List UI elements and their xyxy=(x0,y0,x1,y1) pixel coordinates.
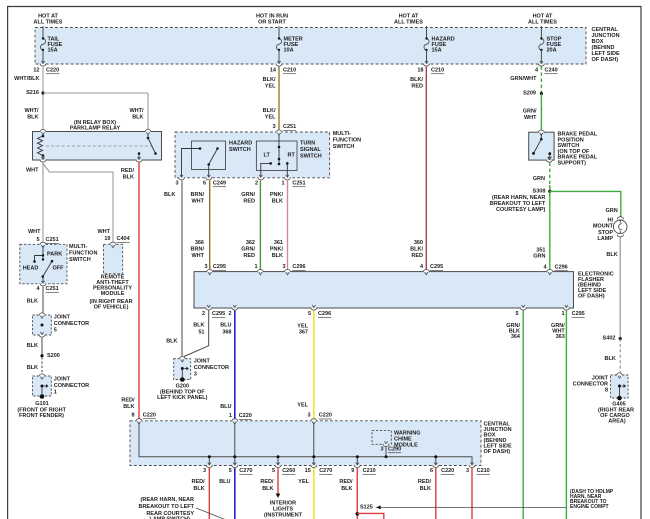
svg-text:OF DASH): OF DASH) xyxy=(578,294,605,300)
svg-text:BLK: BLK xyxy=(27,365,38,371)
svg-text:3: 3 xyxy=(204,264,207,270)
svg-text:(REAR HARN, NEAR: (REAR HARN, NEAR xyxy=(141,497,195,503)
svg-text:1: 1 xyxy=(54,390,57,396)
svg-text:15: 15 xyxy=(305,468,311,474)
svg-text:2: 2 xyxy=(228,311,231,317)
svg-text:BLK: BLK xyxy=(27,343,38,349)
svg-text:BLK: BLK xyxy=(193,323,204,329)
svg-text:GRN: GRN xyxy=(533,176,545,182)
svg-text:COURTESY LAMP): COURTESY LAMP) xyxy=(496,207,546,213)
svg-text:WHT: WHT xyxy=(524,115,537,121)
svg-text:LAMP: LAMP xyxy=(597,236,613,242)
svg-text:C220: C220 xyxy=(143,413,156,419)
svg-text:C249: C249 xyxy=(213,181,226,187)
svg-text:BLU: BLU xyxy=(220,404,231,410)
svg-text:(INSTRUMENT: (INSTRUMENT xyxy=(264,513,303,519)
svg-text:GRN/: GRN/ xyxy=(241,247,255,253)
svg-text:WHT: WHT xyxy=(191,199,204,205)
svg-text:RED/: RED/ xyxy=(418,479,432,485)
svg-text:C220: C220 xyxy=(441,468,454,474)
svg-text:SWITCH: SWITCH xyxy=(300,154,322,160)
svg-text:PARKLAMP RELAY: PARKLAMP RELAY xyxy=(70,126,121,132)
svg-text:51: 51 xyxy=(198,330,204,336)
svg-text:BLU: BLU xyxy=(220,323,231,329)
svg-text:GRN/: GRN/ xyxy=(241,192,255,198)
svg-text:C251: C251 xyxy=(46,237,59,243)
svg-text:BLK/: BLK/ xyxy=(410,247,423,253)
svg-text:1: 1 xyxy=(281,181,284,187)
svg-text:CONNECTOR: CONNECTOR xyxy=(194,365,229,371)
svg-text:BLK: BLK xyxy=(193,486,204,492)
svg-text:MULTI-: MULTI- xyxy=(69,244,87,250)
svg-text:BLK: BLK xyxy=(262,486,273,492)
svg-text:3: 3 xyxy=(307,413,310,419)
svg-text:C220: C220 xyxy=(239,413,252,419)
svg-text:CONNECTOR: CONNECTOR xyxy=(54,321,89,327)
svg-text:LT: LT xyxy=(264,153,271,159)
svg-text:C220: C220 xyxy=(319,413,332,419)
svg-text:RED/: RED/ xyxy=(121,168,135,174)
svg-text:C251: C251 xyxy=(283,124,296,130)
svg-text:BLK: BLK xyxy=(604,356,615,362)
svg-text:RED/: RED/ xyxy=(260,479,274,485)
svg-text:WHT/: WHT/ xyxy=(24,108,39,114)
svg-text:MOUNT: MOUNT xyxy=(593,224,614,230)
svg-text:SIGNAL: SIGNAL xyxy=(300,147,321,153)
svg-text:OF DASH): OF DASH) xyxy=(592,57,619,63)
svg-text:JOINT: JOINT xyxy=(194,359,211,365)
svg-text:3: 3 xyxy=(380,447,383,453)
svg-text:RED/: RED/ xyxy=(121,398,135,404)
svg-text:WHT: WHT xyxy=(28,229,41,235)
svg-text:C270: C270 xyxy=(239,468,252,474)
svg-text:OFF: OFF xyxy=(53,266,65,272)
svg-text:BLK: BLK xyxy=(132,115,143,121)
svg-text:360: 360 xyxy=(414,240,423,246)
svg-text:5: 5 xyxy=(36,237,39,243)
svg-text:RED/: RED/ xyxy=(339,479,353,485)
svg-text:3: 3 xyxy=(203,468,206,474)
svg-text:15A: 15A xyxy=(432,48,442,54)
svg-text:RT: RT xyxy=(288,153,296,159)
svg-text:GRN/WHT: GRN/WHT xyxy=(510,76,537,82)
svg-text:C260: C260 xyxy=(282,468,295,474)
svg-text:5: 5 xyxy=(229,468,232,474)
svg-text:C240: C240 xyxy=(545,68,558,74)
svg-text:BLK: BLK xyxy=(166,339,177,345)
svg-text:C210: C210 xyxy=(283,68,296,74)
svg-text:WHT/BLK: WHT/BLK xyxy=(14,76,39,82)
svg-text:5: 5 xyxy=(515,311,518,317)
svg-text:WHT: WHT xyxy=(97,229,110,235)
svg-text:PARK: PARK xyxy=(47,252,62,258)
svg-text:8: 8 xyxy=(605,388,608,394)
svg-text:BLK: BLK xyxy=(341,486,352,492)
svg-text:C404: C404 xyxy=(117,236,131,242)
svg-text:WHT: WHT xyxy=(191,253,204,259)
svg-text:RED/: RED/ xyxy=(192,479,206,485)
svg-text:FRONT FENDER): FRONT FENDER) xyxy=(19,413,64,419)
svg-text:2: 2 xyxy=(202,311,205,317)
svg-text:C296: C296 xyxy=(292,264,305,270)
svg-text:TURN: TURN xyxy=(300,141,315,147)
svg-text:BRN/: BRN/ xyxy=(191,247,205,253)
svg-text:HI: HI xyxy=(608,218,614,224)
svg-text:OR START: OR START xyxy=(258,20,286,26)
svg-text:20A: 20A xyxy=(547,48,557,54)
svg-text:BLK: BLK xyxy=(123,175,134,181)
svg-text:S402: S402 xyxy=(603,336,616,342)
svg-text:WHT: WHT xyxy=(26,168,39,174)
svg-text:YEL: YEL xyxy=(265,115,276,121)
svg-text:GRN: GRN xyxy=(605,208,617,214)
svg-text:JOINT: JOINT xyxy=(54,315,71,321)
svg-text:S308: S308 xyxy=(533,188,546,194)
svg-text:YEL: YEL xyxy=(297,403,308,409)
svg-text:SWITCH: SWITCH xyxy=(229,147,251,153)
svg-text:GRN: GRN xyxy=(533,254,545,260)
svg-text:18: 18 xyxy=(417,68,423,74)
svg-text:12: 12 xyxy=(33,68,39,74)
svg-text:SWITCH: SWITCH xyxy=(69,257,91,263)
svg-text:BREAKOUT TO LEFT: BREAKOUT TO LEFT xyxy=(138,504,194,510)
svg-text:5: 5 xyxy=(272,468,275,474)
svg-text:5: 5 xyxy=(308,311,311,317)
svg-text:3: 3 xyxy=(175,181,178,187)
svg-text:368: 368 xyxy=(222,330,231,336)
svg-text:FUNCTION: FUNCTION xyxy=(333,138,361,144)
svg-text:C295: C295 xyxy=(572,311,585,317)
svg-text:14: 14 xyxy=(270,68,277,74)
svg-text:BLK: BLK xyxy=(606,252,617,258)
svg-text:BLK/: BLK/ xyxy=(263,77,276,83)
svg-text:HEAD: HEAD xyxy=(23,266,39,272)
svg-text:LEFT KICK PANEL): LEFT KICK PANEL) xyxy=(157,395,207,401)
svg-text:ALL TIMES: ALL TIMES xyxy=(394,20,423,26)
svg-text:10A: 10A xyxy=(284,48,294,54)
svg-text:OF DASH): OF DASH) xyxy=(484,449,511,455)
svg-text:C210: C210 xyxy=(431,68,444,74)
svg-text:BLK: BLK xyxy=(272,199,283,205)
svg-text:OF VEHICLE): OF VEHICLE) xyxy=(94,305,129,311)
svg-text:BLK/: BLK/ xyxy=(263,108,276,114)
svg-text:3: 3 xyxy=(282,264,285,270)
svg-text:361: 361 xyxy=(274,240,283,246)
svg-text:PNK/: PNK/ xyxy=(270,247,284,253)
svg-text:367: 367 xyxy=(299,330,308,336)
svg-text:C296: C296 xyxy=(318,311,331,317)
svg-text:YEL: YEL xyxy=(298,479,309,485)
svg-text:WHT/: WHT/ xyxy=(129,108,144,114)
svg-text:C296: C296 xyxy=(555,265,568,271)
svg-text:3: 3 xyxy=(272,124,275,130)
svg-text:BLU: BLU xyxy=(219,479,230,485)
svg-text:C251: C251 xyxy=(292,181,305,187)
svg-text:C295: C295 xyxy=(213,264,226,270)
svg-text:YEL: YEL xyxy=(297,323,308,329)
svg-text:6: 6 xyxy=(203,181,206,187)
svg-text:BRN/: BRN/ xyxy=(191,192,205,198)
svg-text:MULTI-: MULTI- xyxy=(333,131,351,137)
svg-text:CONNECTOR: CONNECTOR xyxy=(573,382,608,388)
svg-text:S209: S209 xyxy=(523,91,536,97)
svg-text:366: 366 xyxy=(195,240,204,246)
svg-text:BLK: BLK xyxy=(420,486,431,492)
svg-text:5: 5 xyxy=(54,328,57,334)
svg-text:SWITCH: SWITCH xyxy=(333,144,355,150)
svg-text:C210: C210 xyxy=(363,468,376,474)
svg-text:YEL: YEL xyxy=(265,84,276,90)
svg-text:S216: S216 xyxy=(26,90,39,96)
svg-text:15A: 15A xyxy=(48,48,58,54)
svg-text:CONNECTOR: CONNECTOR xyxy=(54,383,89,389)
svg-text:8: 8 xyxy=(131,413,134,419)
svg-text:FUNCTION: FUNCTION xyxy=(69,251,97,257)
svg-text:BLK/: BLK/ xyxy=(410,77,423,83)
svg-text:RED: RED xyxy=(411,253,423,259)
svg-text:S125: S125 xyxy=(360,504,373,510)
svg-text:BLK: BLK xyxy=(123,404,134,410)
svg-text:C251: C251 xyxy=(46,286,59,292)
svg-text:HAZARD: HAZARD xyxy=(229,141,252,147)
svg-text:S200: S200 xyxy=(47,353,60,359)
svg-text:C210: C210 xyxy=(477,468,490,474)
svg-text:PNK/: PNK/ xyxy=(270,192,284,198)
svg-text:9: 9 xyxy=(351,468,354,474)
svg-text:364: 364 xyxy=(511,334,521,340)
svg-text:3: 3 xyxy=(466,468,469,474)
svg-text:RED: RED xyxy=(411,84,423,90)
svg-text:JOINT: JOINT xyxy=(54,377,71,383)
svg-text:GRN/: GRN/ xyxy=(523,109,537,115)
svg-text:RED: RED xyxy=(243,199,255,205)
svg-text:AREA): AREA) xyxy=(608,419,626,425)
svg-text:BLK: BLK xyxy=(272,253,283,259)
svg-text:C220: C220 xyxy=(46,68,59,74)
svg-text:1: 1 xyxy=(561,311,564,317)
svg-text:G101: G101 xyxy=(35,401,48,407)
svg-text:C295: C295 xyxy=(212,311,225,317)
svg-text:ENGINE COMPT: ENGINE COMPT xyxy=(570,504,609,510)
svg-text:BLK: BLK xyxy=(164,192,175,198)
svg-text:C270: C270 xyxy=(319,468,332,474)
svg-text:RED: RED xyxy=(243,253,255,259)
svg-text:STOP: STOP xyxy=(598,230,613,236)
svg-text:3: 3 xyxy=(194,372,197,378)
svg-text:19: 19 xyxy=(104,236,110,242)
svg-text:BLK: BLK xyxy=(27,299,38,305)
svg-text:C295: C295 xyxy=(430,264,443,270)
svg-text:2: 2 xyxy=(255,181,258,187)
svg-text:1: 1 xyxy=(254,264,257,270)
svg-text:C290: C290 xyxy=(388,447,401,453)
svg-text:MODULE: MODULE xyxy=(101,291,125,297)
svg-text:SUPPORT): SUPPORT) xyxy=(558,161,587,167)
svg-text:ALL TIMES: ALL TIMES xyxy=(34,20,63,26)
svg-text:6: 6 xyxy=(430,468,433,474)
svg-text:1: 1 xyxy=(229,413,232,419)
svg-text:362: 362 xyxy=(246,240,255,246)
svg-text:ALL TIMES: ALL TIMES xyxy=(528,20,557,26)
svg-text:363: 363 xyxy=(556,334,565,340)
svg-text:BLK: BLK xyxy=(27,115,38,121)
